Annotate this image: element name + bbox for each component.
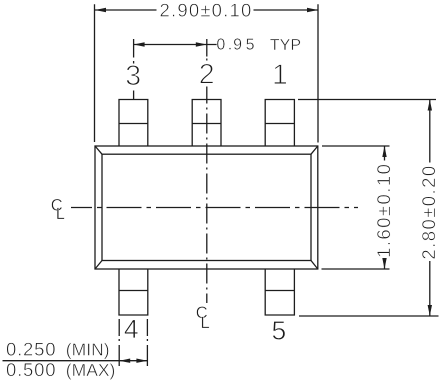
body chamfer bottom-right <box>311 261 318 270</box>
dim 1.60 arrow up <box>382 146 386 157</box>
svg-text:L: L <box>201 314 210 332</box>
dim 2.80 extension line top <box>298 99 436 101</box>
pin 4 lead <box>119 269 148 315</box>
dim 1.60 dimension line <box>384 146 386 269</box>
svg-text:2: 2 <box>199 59 215 91</box>
svg-text:0.250: 0.250 <box>6 338 56 359</box>
body chamfer top-right <box>311 146 318 154</box>
package body inner outline <box>102 154 311 260</box>
dim 2.90 extension line right <box>317 4 319 142</box>
svg-text:2.80±0.20: 2.80±0.20 <box>418 164 439 259</box>
dim 2.90 extension line left <box>94 4 96 142</box>
body chamfer top-left <box>95 146 102 154</box>
dim 0.95 arrow right <box>196 42 207 46</box>
svg-text:TYP: TYP <box>270 37 301 54</box>
pin 3 centerline tick <box>133 39 135 100</box>
svg-text:L: L <box>56 205 65 223</box>
dim 2.90 arrow left <box>95 8 106 12</box>
svg-text:1: 1 <box>272 59 288 91</box>
body chamfer bottom-left <box>95 261 102 270</box>
svg-text:0.500: 0.500 <box>6 359 56 380</box>
dim lead width arrow left <box>119 359 130 363</box>
dim 0.95 arrow left <box>134 42 145 46</box>
pin 2 centerline top tick <box>206 39 208 61</box>
svg-text:5: 5 <box>272 316 287 346</box>
package body outer outline <box>95 146 318 269</box>
dim 1.60 extension line bottom <box>322 268 390 270</box>
horizontal centerline <box>71 207 358 209</box>
svg-text:4: 4 <box>124 314 139 344</box>
dim 2.90 dimension line <box>95 9 318 11</box>
dim 2.80 extension line bottom <box>299 315 439 317</box>
pin 2 lead <box>192 100 221 147</box>
dim lead width arrow right <box>136 359 147 363</box>
svg-text:(MAX): (MAX) <box>66 360 116 380</box>
pin 2 centerline dash-dot <box>206 87 208 304</box>
svg-text:0.95: 0.95 <box>216 36 254 53</box>
svg-text:3: 3 <box>125 60 141 92</box>
pin 3 lead <box>119 100 148 147</box>
pin 4 extension line left dash-dot <box>118 319 120 366</box>
dim 1.60 extension line top <box>322 145 390 147</box>
svg-text:1.60±0.10: 1.60±0.10 <box>373 163 394 258</box>
dim 2.80 arrow up <box>428 100 432 111</box>
dim 0.95 dimension line <box>134 44 217 46</box>
svg-text:(MIN): (MIN) <box>66 339 110 359</box>
pin 4 extension line right dash-dot <box>146 319 148 366</box>
pin 1 lead <box>265 100 294 147</box>
dim 0.250/0.500 dimension line (fraction bar) <box>3 360 148 362</box>
svg-text:2.90±0.10: 2.90±0.10 <box>160 0 253 21</box>
pin 5 lead <box>265 269 294 315</box>
dim 2.80 dimension line <box>429 100 431 317</box>
dim 2.90 arrow right <box>307 8 318 12</box>
dim 2.80 arrow down <box>428 305 432 316</box>
dim 1.60 arrow down <box>382 258 386 269</box>
